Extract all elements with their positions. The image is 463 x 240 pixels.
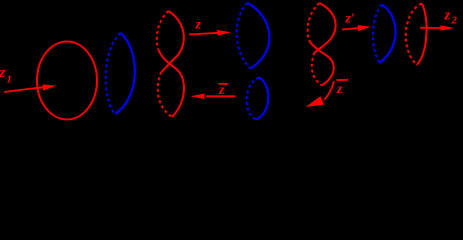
arrow zprime — [342, 25, 371, 31]
figure-eight F1 curve A dashed (bottom left) — [158, 72, 172, 117]
red ellipse E2 left dashed — [406, 4, 422, 66]
label z2 — [444, 8, 458, 27]
red ellipse E1 — [37, 42, 97, 120]
figure-eight F1 curve B dashed (top left) — [157, 11, 169, 50]
blue lens L3 left dashed — [373, 5, 382, 64]
figure-eight F2 curve B solid (bottom right) — [310, 42, 334, 86]
label z1 — [0, 65, 12, 86]
svg-text:z: z — [0, 65, 6, 81]
figure-eight F1 curve A solid (top right) — [162, 11, 184, 72]
arrow zbar — [191, 94, 236, 100]
figure-eight F2 curve A dashed (bottom left) — [312, 53, 322, 86]
svg-text:z: z — [336, 82, 343, 97]
blue lens L2 left dashed — [237, 3, 251, 69]
small blue circle right solid — [256, 78, 268, 120]
arrow z2 — [420, 25, 454, 31]
svg-text:z: z — [195, 18, 202, 33]
svg-text:z: z — [444, 8, 451, 24]
red ellipse E2 right solid — [417, 4, 427, 66]
figure-eight F1 curve B solid (bottom right) — [159, 50, 185, 117]
label zbar — [218, 83, 228, 98]
small blue circle left dashed — [247, 78, 259, 120]
svg-text:′: ′ — [346, 75, 350, 90]
blue lens L2 right solid — [248, 3, 270, 69]
blue lens L1 right solid — [115, 33, 135, 114]
arrow zbarprime — [306, 81, 335, 107]
figure-eight F2 curve B dashed (top left) — [308, 3, 320, 42]
svg-text:1: 1 — [7, 74, 13, 86]
arrow z1 — [4, 84, 57, 92]
label zbarprime — [336, 75, 350, 97]
blue lens L3 right solid — [380, 5, 396, 64]
blue lens L1 left dashed — [106, 33, 121, 114]
arrow z — [189, 30, 231, 36]
svg-text:z′: z′ — [345, 12, 355, 27]
svg-text:2: 2 — [451, 15, 458, 27]
figure-eight F2 curve A solid (top right) — [315, 3, 336, 53]
